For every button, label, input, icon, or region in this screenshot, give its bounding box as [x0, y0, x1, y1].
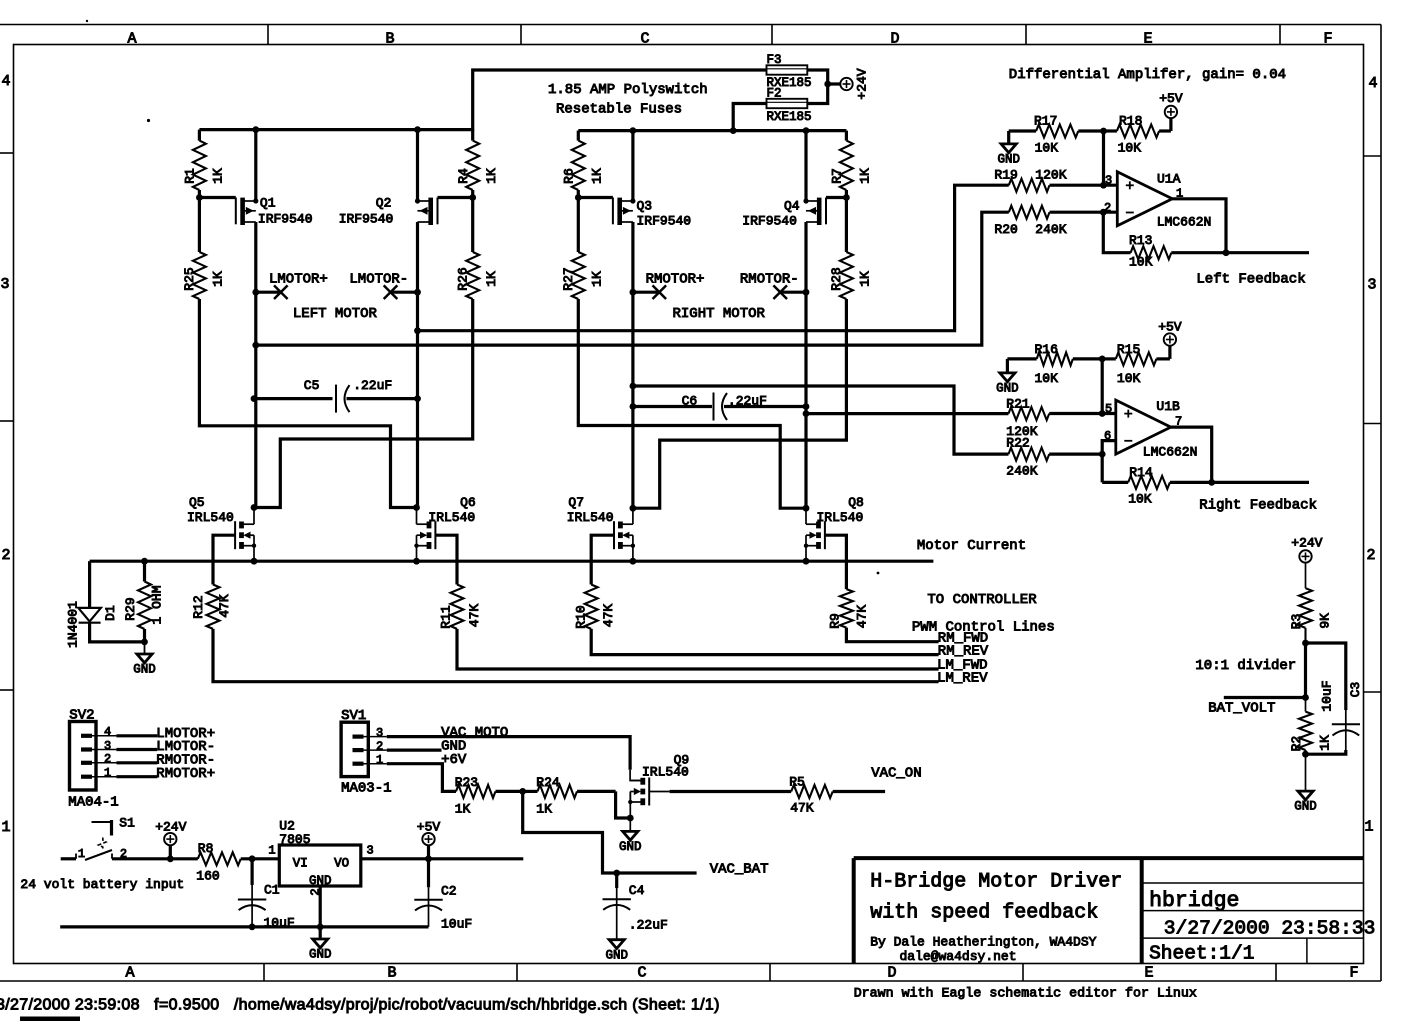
resistor R15 10K — [1102, 342, 1170, 386]
resistor R4 1K — [456, 130, 499, 198]
svg-text:RMOTOR+: RMOTOR+ — [156, 766, 215, 782]
wire Q9 gate to R5 — [649, 791, 791, 793]
label Q5 — [187, 495, 234, 525]
supply +24V battery — [155, 820, 186, 863]
svg-text:Q2: Q2 — [376, 196, 392, 211]
label LMOTOR+ — [269, 272, 328, 288]
node LMOTOR+ terminal — [252, 285, 287, 299]
wire R25 to Q6 drain — [199, 299, 416, 508]
label Q8 — [817, 495, 864, 525]
wire +6V net — [387, 764, 456, 792]
resistor R25 1K — [182, 198, 226, 300]
wire LMOTOR- to R19 — [414, 185, 1009, 334]
svg-text:R17: R17 — [1034, 114, 1057, 129]
svg-text:R13: R13 — [1129, 233, 1152, 248]
svg-text:R19: R19 — [994, 168, 1017, 183]
node RMOTOR+ terminal — [630, 285, 667, 299]
resistor R6 1K — [562, 131, 605, 198]
svg-text:IRL540: IRL540 — [642, 765, 689, 780]
label C5 — [304, 378, 392, 393]
op-amp U1B — [1116, 400, 1171, 454]
node gate junctions — [196, 194, 850, 201]
svg-text:MA03-1: MA03-1 — [341, 781, 391, 797]
svg-text:D1: D1 — [103, 605, 118, 621]
label Left Feedback — [1196, 272, 1305, 288]
svg-text:R18: R18 — [1119, 114, 1142, 129]
svg-text:R26: R26 — [455, 267, 470, 290]
wire R3 to R2 — [1304, 643, 1307, 698]
label U1B — [1143, 399, 1198, 459]
svg-text:1.85 AMP Polyswitch: 1.85 AMP Polyswitch — [548, 82, 708, 98]
svg-text:BAT_VOLT: BAT_VOLT — [1208, 701, 1275, 717]
wire F2 left to right rail — [733, 104, 766, 131]
svg-text:R27: R27 — [561, 267, 576, 290]
svg-text:1K: 1K — [1318, 735, 1333, 751]
wire VAC_MOTO net — [387, 737, 630, 770]
wire Q1 source — [254, 130, 257, 201]
frame column dividers bottom — [264, 964, 1276, 982]
svg-text:RXE185: RXE185 — [767, 110, 812, 124]
svg-text:10K: 10K — [1035, 371, 1059, 386]
svg-text:Left Feedback: Left Feedback — [1196, 272, 1305, 288]
ground at R16 — [996, 359, 1019, 396]
label PWM Control Lines — [912, 620, 1055, 636]
svg-text:7805: 7805 — [279, 832, 310, 847]
resistor R23 1K — [455, 775, 523, 816]
ground below Q9 — [619, 818, 642, 854]
resistor R24 1K — [523, 775, 616, 816]
capacitor C3 10uF — [1306, 643, 1361, 754]
resistor R14 10K — [1102, 465, 1215, 507]
svg-text:4: 4 — [1, 73, 10, 90]
resistor R11 47K — [439, 585, 939, 670]
svg-text:C5: C5 — [304, 378, 320, 393]
frame row dividers right — [1364, 156, 1382, 692]
wire motor current rail — [90, 558, 934, 565]
svg-text:F: F — [1349, 965, 1358, 982]
connector SV1 MA03-1 — [341, 722, 387, 776]
svg-text:MA04-1: MA04-1 — [68, 794, 118, 810]
svg-text:9K: 9K — [1318, 613, 1333, 629]
svg-text:47K: 47K — [217, 594, 232, 618]
label RIGHT MOTOR — [673, 306, 766, 322]
label LEFT MOTOR — [293, 306, 378, 322]
svg-text:1 OHM: 1 OHM — [150, 585, 165, 624]
label Motor Current — [917, 538, 1026, 554]
node R23 R24 junction — [519, 788, 526, 795]
svg-text:+5V: +5V — [1159, 91, 1183, 106]
title block sheet — [1149, 943, 1254, 965]
svg-text:C3: C3 — [1348, 682, 1363, 698]
label C3 — [1320, 680, 1363, 711]
wire RMOTOR- to R21 — [803, 410, 1009, 417]
svg-text:IRF9540: IRF9540 — [258, 212, 313, 227]
svg-text:C: C — [640, 31, 649, 48]
svg-text:RMOTOR-: RMOTOR- — [740, 272, 799, 288]
svg-text:LMOTOR+: LMOTOR+ — [269, 272, 328, 288]
svg-text:F3: F3 — [767, 53, 782, 67]
ground below U2 — [309, 927, 332, 962]
node RMOTOR- terminal — [773, 285, 809, 299]
svg-text:R14: R14 — [1129, 465, 1153, 480]
svg-text:1: 1 — [1, 819, 10, 836]
svg-text:IRF9540: IRF9540 — [742, 214, 797, 229]
wire right bridge top rail — [578, 129, 846, 132]
svg-text:VI: VI — [293, 856, 308, 870]
svg-text:Q1: Q1 — [260, 196, 276, 211]
svg-text:1K: 1K — [211, 168, 226, 184]
svg-text:Q4: Q4 — [784, 199, 800, 214]
label Q3 — [637, 199, 692, 229]
wire LMOTOR+ to R20 — [252, 212, 1008, 348]
label F2 — [767, 87, 782, 101]
resistor R3 9K — [1289, 563, 1333, 643]
svg-text:1K: 1K — [590, 271, 605, 287]
wire RMOTOR+ to R22 — [630, 383, 1009, 455]
resistor R27 1K — [561, 198, 605, 300]
svg-text:R22: R22 — [1006, 435, 1029, 450]
label Q7 — [567, 495, 614, 525]
label 10:1 divider — [1195, 658, 1296, 674]
resistor R22 240K — [1006, 435, 1105, 478]
resistor R16 10K — [1007, 342, 1102, 386]
title block border — [854, 858, 1364, 963]
svg-text:10:1 divider: 10:1 divider — [1195, 658, 1296, 674]
title text — [870, 871, 1122, 925]
svg-text:1K: 1K — [858, 168, 873, 184]
svg-text:F: F — [1323, 31, 1332, 48]
supply +5V U1B — [1158, 320, 1182, 359]
svg-text:R5: R5 — [789, 775, 805, 790]
svg-text:Differential Amplifer, gain= 0: Differential Amplifer, gain= 0.04 — [1009, 67, 1286, 83]
svg-text:R25: R25 — [182, 267, 197, 290]
wire left bridge top rail to fuse F3 — [199, 70, 766, 130]
svg-text:1K: 1K — [590, 168, 605, 184]
wire left feedback out — [1226, 251, 1309, 254]
label BAT_VOLT — [1208, 701, 1275, 717]
svg-text:Sheet:1/1: Sheet:1/1 — [1149, 943, 1254, 965]
svg-text:1K: 1K — [484, 168, 499, 184]
scan speck marks — [86, 20, 880, 575]
transistor Q2 IRF9540 — [415, 198, 473, 226]
node right rail junctions — [630, 127, 810, 134]
svg-text:47K: 47K — [601, 604, 616, 628]
resistor R8 160 — [196, 841, 279, 884]
node R3 bottom — [1302, 640, 1309, 647]
svg-text:120K: 120K — [1035, 168, 1066, 183]
svg-text:R4: R4 — [456, 168, 471, 184]
svg-text:1K: 1K — [211, 271, 226, 287]
wire right feedback out — [1212, 481, 1309, 484]
label RM_REV — [938, 643, 989, 659]
svg-text:+24V: +24V — [155, 820, 186, 835]
svg-text:1K: 1K — [455, 801, 471, 816]
svg-text:GND: GND — [996, 382, 1019, 396]
svg-text:1N4001: 1N4001 — [66, 601, 81, 648]
svg-text:.22uF: .22uF — [629, 918, 668, 933]
svg-text:hbridge: hbridge — [1149, 889, 1239, 913]
svg-text:R10: R10 — [574, 605, 589, 628]
frame row dividers left — [0, 153, 14, 690]
svg-text:IRF9540: IRF9540 — [339, 212, 394, 227]
resistor R18 10K — [1104, 114, 1171, 156]
wire Q3 source — [631, 131, 634, 201]
resistor R21 120K — [1006, 397, 1116, 440]
author text — [870, 934, 1096, 963]
wire F3 to +24V — [807, 70, 840, 84]
svg-text:IRF9540: IRF9540 — [637, 214, 692, 229]
label MA04-1 — [68, 794, 118, 810]
svg-text:RMOTOR+: RMOTOR+ — [646, 272, 705, 288]
frame column letters top — [127, 31, 1332, 48]
title block date — [1164, 918, 1376, 940]
label RM_FWD — [938, 630, 988, 646]
svg-text:10uF: 10uF — [441, 916, 472, 931]
svg-text:IRL540: IRL540 — [187, 510, 234, 525]
svg-text:Q5: Q5 — [189, 495, 205, 510]
capacitor C1 10uF — [238, 859, 266, 927]
label SV2 — [69, 707, 94, 723]
wire U1B pin6 — [1102, 441, 1116, 483]
svg-text:.22uF: .22uF — [353, 378, 392, 393]
svg-text:H-Bridge Motor Driver: H-Bridge Motor Driver — [870, 871, 1122, 894]
svg-text:LEFT MOTOR: LEFT MOTOR — [293, 306, 378, 322]
svg-text:10K: 10K — [1128, 492, 1152, 507]
label F3 value — [767, 76, 812, 90]
resistor R10 47K — [574, 585, 939, 655]
svg-text:Q6: Q6 — [460, 495, 476, 510]
svg-text:Motor Current: Motor Current — [917, 538, 1026, 554]
svg-text:D: D — [890, 31, 899, 48]
svg-text:1: 1 — [268, 844, 275, 858]
wire R24 to Q9 source — [616, 791, 631, 818]
wire BAT_VOLT net — [1224, 694, 1309, 701]
svg-text:R23: R23 — [455, 775, 478, 790]
svg-text:GND: GND — [1294, 800, 1317, 814]
label Q9 — [642, 753, 689, 780]
svg-text:R8: R8 — [198, 841, 214, 856]
svg-text:A: A — [127, 31, 136, 48]
wire U2 output rail — [361, 857, 524, 860]
svg-text:R24: R24 — [536, 775, 560, 790]
svg-text:3: 3 — [1367, 277, 1376, 294]
svg-text:C2: C2 — [441, 884, 457, 899]
node C1 junction — [249, 855, 256, 862]
resistor R19 120K — [994, 168, 1117, 192]
diode D1 1N4001 — [78, 561, 144, 642]
svg-text:TO CONTROLLER: TO CONTROLLER — [927, 592, 1037, 608]
resistor R1 1K — [183, 130, 226, 198]
svg-text:RIGHT MOTOR: RIGHT MOTOR — [673, 306, 766, 322]
svg-text:GND: GND — [619, 840, 642, 854]
supply +5V U2 — [417, 820, 441, 863]
svg-text:1K: 1K — [858, 271, 873, 287]
svg-text:GND: GND — [605, 948, 628, 962]
svg-text:GND: GND — [133, 663, 156, 677]
label VAC_MOTO — [441, 725, 508, 741]
fuse F3 — [767, 65, 808, 74]
scan artifact mark — [20, 1017, 80, 1021]
svg-text:R1: R1 — [183, 168, 198, 184]
resistor R2 1K — [1289, 698, 1333, 758]
svg-text:Resetable Fuses: Resetable Fuses — [556, 102, 682, 118]
plot file path text — [0, 997, 720, 1014]
svg-text:4: 4 — [104, 725, 111, 739]
wire SV1 GND net — [387, 748, 442, 751]
wire SV2 nets — [116, 736, 157, 777]
resistor R29 1 OHM — [123, 561, 165, 645]
label F3 — [767, 53, 782, 67]
resistor R9 47K — [827, 589, 938, 642]
wire U2 ground pin — [319, 886, 322, 927]
svg-text:C6: C6 — [682, 394, 698, 409]
svg-text:2: 2 — [1366, 547, 1375, 564]
node LMOTOR- terminal — [384, 285, 421, 299]
fuse F2 — [767, 99, 808, 108]
svg-text:R6: R6 — [562, 168, 577, 184]
label Q4 — [742, 199, 800, 229]
svg-text:2: 2 — [376, 739, 383, 753]
svg-text:5: 5 — [1105, 402, 1112, 416]
label +6V — [441, 752, 467, 768]
svg-text:2: 2 — [1104, 201, 1111, 215]
resistor R26 1K — [455, 198, 499, 300]
capacitor C4 .22uF — [603, 870, 631, 940]
svg-text:+5V: +5V — [1158, 320, 1182, 335]
svg-text:LM_REV: LM_REV — [937, 670, 988, 686]
svg-text:R15: R15 — [1117, 342, 1140, 357]
transistor Q5 IRL540 — [213, 504, 257, 584]
svg-text:B: B — [385, 31, 394, 48]
svg-text:Q7: Q7 — [568, 495, 584, 510]
wire S1 to R8 — [112, 857, 198, 860]
svg-text:VAC_ON: VAC_ON — [871, 766, 921, 782]
svg-text:2: 2 — [1, 547, 10, 564]
svg-text:with speed feedback: with speed feedback — [870, 902, 1098, 925]
svg-text:F2: F2 — [767, 87, 782, 101]
svg-text:240K: 240K — [1035, 222, 1066, 237]
svg-text:10K: 10K — [1035, 140, 1059, 155]
label LMOTOR- — [349, 272, 408, 288]
capacitor C5 .22uF — [251, 385, 421, 413]
wire ground rail — [60, 924, 428, 931]
label C6 — [682, 394, 767, 409]
svg-text:1: 1 — [1364, 819, 1373, 836]
svg-text:GND: GND — [997, 153, 1020, 167]
svg-text:3/27/2000 23:58:33: 3/27/2000 23:58:33 — [1164, 918, 1376, 940]
svg-text:LMC662N: LMC662N — [1157, 215, 1212, 230]
wire Q2 source — [416, 130, 419, 201]
svg-text:+5V: +5V — [417, 820, 441, 835]
ground below C4 — [605, 940, 628, 963]
label U1B pins — [1104, 402, 1182, 443]
title block row lines — [1142, 883, 1364, 964]
svg-text:A: A — [125, 965, 134, 982]
transistor Q8 IRL540 — [803, 505, 847, 589]
node R17 R18 junction — [1100, 128, 1107, 189]
svg-text:47K: 47K — [467, 604, 482, 628]
label C4 — [629, 883, 668, 933]
svg-text:10K: 10K — [1129, 255, 1153, 270]
svg-text:SV1: SV1 — [341, 708, 366, 724]
supply +24V top — [840, 78, 852, 90]
svg-text:B: B — [387, 965, 396, 982]
transistor Q6 IRL540 — [413, 504, 457, 584]
label SV2 net names — [156, 726, 215, 782]
wire Q2 drain column — [416, 222, 419, 508]
svg-text:VAC_BAT: VAC_BAT — [710, 862, 769, 878]
svg-text:R9: R9 — [827, 613, 842, 629]
svg-text:10uF: 10uF — [1320, 680, 1335, 711]
supply +5V U1A — [1159, 91, 1183, 131]
svg-text:R11: R11 — [439, 605, 454, 629]
resistor R13 10K — [1103, 212, 1229, 269]
switch S1 — [61, 820, 113, 860]
wire R28 to Q7 drain — [633, 299, 847, 508]
supply +24V divider — [1291, 536, 1322, 563]
label battery input — [20, 877, 184, 892]
label SV1 GND — [441, 738, 466, 754]
svg-text:1: 1 — [78, 847, 85, 861]
label RMOTOR+ — [646, 272, 705, 288]
svg-text:D: D — [887, 965, 896, 982]
label Right Feedback — [1199, 497, 1317, 513]
svg-text:+24V: +24V — [1291, 536, 1322, 551]
label VAC_ON — [871, 766, 921, 782]
wire F2 to +24V — [807, 84, 827, 104]
connector SV2 MA04-1 — [70, 722, 117, 791]
svg-text:+6V: +6V — [441, 752, 467, 768]
svg-text:SV2: SV2 — [69, 707, 94, 723]
svg-text:By Dale Heatherington, WA4DSY: By Dale Heatherington, WA4DSY — [870, 934, 1096, 949]
svg-text:3: 3 — [104, 739, 111, 753]
label SV1 — [341, 708, 366, 724]
wire U1B output — [1171, 427, 1212, 482]
frame row numbers left — [0, 73, 10, 836]
svg-text:E: E — [1144, 965, 1153, 982]
svg-text:R21: R21 — [1006, 397, 1030, 412]
svg-text:3/27/2000 23:59:08 f=0.9500: 3/27/2000 23:59:08 f=0.9500 /home/wa4dsy… — [0, 997, 720, 1014]
svg-text:.22uF: .22uF — [728, 394, 767, 409]
label TO CONTROLLER — [927, 592, 1037, 608]
svg-text:240K: 240K — [1006, 464, 1037, 479]
svg-text:IRL540: IRL540 — [817, 510, 864, 525]
frame column dividers top — [268, 25, 1280, 45]
ground at R17 — [997, 131, 1020, 167]
wire U1A output — [1172, 199, 1226, 253]
svg-text:Q3: Q3 — [637, 199, 653, 214]
wire Q4 source — [804, 131, 807, 201]
svg-text:Drawn with Eagle schematic edi: Drawn with Eagle schematic editor for Li… — [854, 986, 1197, 1001]
label C1 — [264, 883, 295, 931]
svg-text:IRL540: IRL540 — [428, 510, 475, 525]
label RMOTOR- — [740, 272, 799, 288]
title block name — [1149, 889, 1239, 913]
svg-text:R3: R3 — [1289, 614, 1304, 630]
wire Q4 drain column — [804, 222, 807, 508]
svg-text:Right Feedback: Right Feedback — [1199, 497, 1317, 513]
svg-text:10K: 10K — [1118, 140, 1142, 155]
svg-text:C: C — [637, 965, 646, 982]
svg-text:E: E — [1143, 31, 1152, 48]
label LM_FWD — [937, 658, 987, 674]
transistor Q9 IRL540 — [627, 770, 649, 822]
label U1A — [1157, 171, 1212, 229]
label Q2 — [339, 196, 394, 227]
label MA03-1 — [341, 781, 391, 797]
svg-text:3: 3 — [376, 726, 383, 740]
svg-text:R28: R28 — [829, 267, 844, 290]
